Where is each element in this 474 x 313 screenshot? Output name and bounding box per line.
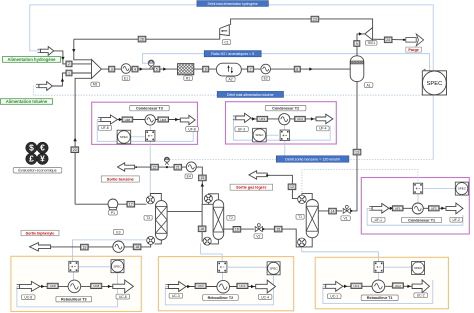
svg-text:16: 16 (235, 228, 239, 232)
stream box 22 (151, 164, 159, 170)
stream box UF4 (295, 116, 306, 121)
svg-text:€: € (40, 143, 45, 153)
product arrow biphenyl (30, 243, 51, 251)
Condenseur T3 inlet arrow (101, 115, 118, 124)
svg-text:A1: A1 (367, 83, 371, 87)
label UC-2 (414, 293, 428, 298)
condenser fan T3 (146, 196, 154, 204)
svg-text:T2: T2 (229, 216, 233, 220)
junction dot benzene gauge (166, 166, 168, 168)
svg-text:14: 14 (331, 209, 335, 213)
stream box UC3 (195, 283, 206, 288)
svg-text:$: $ (29, 143, 34, 153)
label T3 (144, 215, 152, 220)
heat exchanger E1 (121, 64, 131, 74)
SPEC Rebouilleur T3 (111, 260, 124, 273)
label UF-2 (450, 217, 463, 222)
label T1 (296, 214, 304, 219)
green label toluene feed (1, 99, 53, 105)
label Purge (406, 47, 422, 52)
label P1 (109, 210, 118, 215)
stream box UC8 b (91, 283, 102, 288)
Condenseur T1 title (402, 217, 442, 222)
svg-text:UC8: UC8 (93, 284, 99, 288)
label E1 (122, 76, 130, 81)
svg-text:UF3: UF3 (259, 117, 265, 121)
reboiler fan T3 (147, 236, 155, 244)
info line ratio annotation (143, 54, 430, 71)
label UC-8 right (116, 294, 130, 299)
stream box 14 (329, 208, 337, 214)
stream box 3 (109, 66, 115, 72)
label UC-8 left (21, 295, 35, 300)
svg-text:R1: R1 (186, 76, 190, 80)
SPEC Condenseur T1 (455, 182, 468, 195)
Condenseur T3 outlet arrow (180, 115, 195, 124)
label C1 (222, 40, 230, 45)
stream box UC1 (351, 283, 362, 288)
label UC-1 (327, 294, 341, 299)
info line reboiler T1 to module (302, 246, 379, 261)
svg-text:SPEC: SPEC (113, 264, 122, 268)
wire mixer outlet to reactor train (101, 68, 177, 70)
svg-text:UC-2: UC-2 (417, 294, 425, 298)
svg-text:1: 1 (68, 71, 70, 75)
stream box 23 (311, 16, 319, 22)
svg-text:20: 20 (73, 148, 77, 152)
svg-text:21: 21 (176, 166, 180, 170)
module Rebouilleur T1 (374, 262, 383, 273)
Condenseur T3 wire (118, 119, 181, 121)
Condenseur T1 outlet arrow (446, 203, 463, 214)
svg-text:Rebouilleur T1: Rebouilleur T1 (367, 296, 393, 300)
feed arrow toluene (39, 82, 53, 91)
blue label total toluene feed rate (217, 91, 283, 97)
info line condenser T3 module (149, 141, 151, 196)
module Condenseur T2 (280, 130, 289, 141)
wire T3 column bottom to reboiler (155, 240, 162, 244)
region box Condenseur T3 (92, 102, 198, 144)
column T3 (156, 201, 168, 240)
svg-text:22: 22 (153, 165, 157, 169)
reboiler fan T1 (298, 238, 306, 246)
svg-text:Ratio H2 / aromatiques = 5: Ratio H2 / aromatiques = 5 (211, 52, 254, 56)
valve V1 (343, 208, 350, 213)
Rebouilleur T2 outlet arrow (256, 280, 276, 293)
wire T2 left feed stub (208, 203, 213, 205)
svg-text:E1: E1 (124, 76, 128, 80)
label A2 (226, 77, 235, 82)
wire valve V1 to column T1 stream 14 (318, 210, 342, 212)
product arrow light gas (249, 171, 267, 179)
svg-text:UC-8: UC-8 (119, 295, 127, 299)
reactor R1 (178, 64, 194, 75)
svg-text:¥: ¥ (40, 154, 45, 164)
wire T1 overhead to light gas outlet (267, 175, 298, 198)
info line reboiler T3 to module (72, 240, 146, 261)
junction marks on feed lines (61, 57, 64, 60)
label UF-4 (317, 126, 330, 131)
gauge benzene measure (165, 162, 168, 165)
stream box 15 (274, 226, 282, 232)
wire T2 bottoms to T3 feed (202, 204, 203, 241)
module Condenseur T3 (146, 131, 155, 142)
svg-text:UC4: UC4 (239, 284, 245, 288)
stream box 13 (353, 149, 361, 155)
stream box 19 (81, 244, 89, 250)
green label hydrogen feed (3, 57, 61, 63)
column T2 (213, 200, 224, 240)
svg-text:UC1: UC1 (353, 284, 359, 288)
junction mark on benzene riser (201, 183, 204, 186)
svg-text:T3: T3 (146, 216, 150, 220)
wire A1 vapor to TEE1 stream 9 (357, 34, 365, 56)
region box Condenseur T1 (361, 178, 469, 235)
svg-text:5: 5 (156, 67, 158, 71)
region box Rebouilleur T1 (315, 257, 448, 309)
svg-text:C1: C1 (224, 40, 228, 44)
svg-text:18: 18 (135, 245, 139, 249)
svg-text:Condenseur T3: Condenseur T3 (136, 106, 163, 110)
label UC-4 (258, 295, 272, 300)
Rebouilleur T2 wire (186, 286, 256, 288)
stream box 15 (199, 175, 207, 181)
info loop Rebouilleur T1 box (323, 280, 433, 304)
stream box 7 (248, 66, 254, 72)
blue label H2 aromatics ratio (204, 51, 261, 57)
label UF-1 (372, 217, 385, 222)
stream box UF3 (257, 116, 268, 121)
stream box 12 (288, 184, 296, 190)
svg-text:19: 19 (82, 245, 86, 249)
label UC-3 (169, 293, 183, 298)
svg-text:UF-1: UF-1 (375, 218, 382, 222)
svg-text:Débit total alimentation hydro: Débit total alimentation hydrogène (208, 2, 258, 6)
svg-text:6: 6 (205, 67, 207, 71)
Rebouilleur T1 outlet arrow (412, 280, 429, 293)
stream box 24 (384, 37, 392, 43)
svg-text:4: 4 (134, 67, 136, 71)
stream box 1 (66, 70, 72, 76)
svg-text:UC-4: UC-4 (261, 295, 269, 299)
svg-text:16: 16 (200, 227, 204, 231)
svg-text:UC3: UC3 (198, 284, 204, 288)
svg-text:13: 13 (355, 150, 359, 154)
wire recycle 26 into mixer (74, 39, 92, 60)
reboiler fan T2 (203, 237, 211, 245)
info line reboiler T2 to module (201, 243, 223, 261)
wire T2 column bottom to reboiler (211, 240, 219, 244)
svg-text:26: 26 (140, 37, 144, 41)
svg-text:SPEC: SPEC (255, 133, 264, 137)
Condenseur T2 wire (251, 118, 316, 120)
Rebouilleur T1 inlet arrow (326, 281, 343, 291)
wire T1 bottoms to valve V2 (263, 229, 312, 247)
compressor C1 (220, 25, 230, 36)
svg-text:Sortie benzène: Sortie benzène (107, 177, 134, 181)
Condenseur T2 inlet arrow (236, 113, 251, 122)
wire T3 bottoms biphenyl line (51, 244, 151, 247)
condenser fan T1 (298, 195, 306, 203)
svg-text:E2: E2 (264, 77, 268, 81)
stream box 16 (233, 227, 241, 233)
wire TEE1 to purge stream 24 (373, 38, 406, 41)
stream box UF1 (392, 206, 403, 211)
stream box 18 (133, 244, 141, 250)
wire hydrogen feed to mixer stream 2 (54, 51, 92, 64)
label UF-8 right (186, 127, 199, 132)
svg-text:8: 8 (296, 67, 298, 71)
SPEC main block (422, 71, 446, 95)
wire TEE1 recycle to compressor stream 23 (231, 19, 373, 28)
svg-text:Alimentation toluène: Alimentation toluène (6, 99, 48, 104)
svg-text:Rebouilleur T2: Rebouilleur T2 (208, 296, 234, 300)
Condenseur T3 title (130, 105, 170, 110)
label M1 (91, 82, 100, 87)
Rebouilleur T2 exchanger (217, 280, 230, 293)
svg-text:UC8: UC8 (50, 284, 56, 288)
wire toluene feed to mixer stream 1 (52, 73, 91, 86)
svg-text:UF4: UF4 (297, 117, 303, 121)
label A1 (364, 83, 373, 88)
info loop Condenseur T2 box (233, 118, 330, 140)
heat exchanger E3 (113, 241, 124, 252)
svg-text:UF-8: UF-8 (101, 126, 108, 130)
column T1 (306, 200, 318, 238)
condenser fan T2 (204, 195, 212, 203)
info line benzene flow annotation (170, 158, 434, 160)
svg-text:UF1: UF1 (395, 207, 401, 211)
svg-text:UF-4: UF-4 (319, 127, 326, 131)
svg-text:Évaluation économique: Évaluation économique (18, 168, 56, 173)
blue label benzene output rate (276, 156, 349, 162)
Condenseur T1 wire (389, 207, 446, 209)
wire T2 condenser loop (208, 194, 218, 200)
wire T1 condenser loop (302, 193, 312, 199)
stream box 17 (127, 201, 135, 207)
svg-text:UC-3: UC-3 (172, 294, 180, 298)
region box Rebouilleur T3 (11, 256, 141, 311)
Rebouilleur T1 wire (343, 285, 412, 287)
label economic evaluation (13, 168, 62, 173)
stream box 8 (294, 66, 300, 72)
Condenseur T1 inlet arrow (372, 204, 389, 214)
Rebouilleur T3 title (56, 296, 92, 302)
module Condenseur T1 (413, 183, 422, 194)
svg-text:3: 3 (111, 67, 113, 71)
label UF-8 left (98, 126, 111, 131)
module Rebouilleur T3 (69, 261, 78, 272)
stream box 16 (198, 226, 206, 232)
Rebouilleur T3 outlet arrow (113, 280, 134, 293)
svg-text:Condenseur T2: Condenseur T2 (272, 106, 299, 110)
wire T3 condenser to pump P1 toluene recycle (118, 203, 147, 205)
stream box UC4 (237, 283, 248, 288)
svg-text:Sortie biphényle: Sortie biphényle (26, 231, 55, 235)
stream box 4 (132, 66, 138, 72)
svg-text:Rebouilleur T3: Rebouilleur T3 (61, 297, 87, 301)
svg-text:Débit total alimentation toluè: Débit total alimentation toluène (227, 93, 274, 97)
wire A1 liquid stream 13 to valve V1 (351, 82, 357, 211)
stream box 2 (66, 61, 72, 67)
wire T2 condenser to E4 benzene line (196, 167, 208, 204)
wire compressor outlet stream 26 (74, 34, 220, 39)
Condenseur T3 exchanger (145, 115, 155, 125)
stream box 20 (71, 147, 79, 153)
svg-text:9: 9 (356, 42, 358, 46)
info loop Condenseur T3 box (97, 120, 193, 142)
stream box 6 (203, 66, 209, 72)
svg-text:SPEC: SPEC (270, 266, 279, 270)
stream box UF8 b (158, 117, 169, 122)
svg-text:UF8: UF8 (125, 118, 131, 122)
splitter TEE1 (365, 28, 373, 40)
svg-text:Condenseur T1: Condenseur T1 (408, 218, 435, 222)
label UF-3 (235, 127, 248, 132)
svg-text:Sortie gaz légers: Sortie gaz légers (236, 186, 266, 190)
svg-text:E4: E4 (187, 175, 191, 179)
label TEE1 (365, 41, 377, 46)
svg-text:12: 12 (290, 185, 294, 189)
svg-text:UC-1: UC-1 (330, 295, 338, 299)
Rebouilleur T2 inlet arrow (168, 282, 186, 292)
region box Condenseur T2 (226, 102, 337, 144)
feed arrow hydrogen (41, 47, 54, 56)
red label benzene outlet (101, 176, 139, 182)
svg-text:SPEC: SPEC (120, 135, 129, 139)
svg-text:24: 24 (386, 38, 390, 42)
mixer M1 (92, 60, 102, 79)
stream box 5 (154, 66, 160, 72)
Rebouilleur T3 inlet arrow (20, 281, 40, 291)
svg-text:UC-8: UC-8 (24, 296, 32, 300)
Condenseur T1 exchanger (412, 203, 423, 214)
svg-text:UF8: UF8 (160, 118, 166, 122)
svg-text:Purge: Purge (408, 48, 418, 52)
economic evaluation icon (26, 142, 37, 153)
info loop Rebouilleur T3 box (17, 274, 118, 307)
info loop Condenseur T1 box (367, 208, 463, 225)
junction marks on reactor line (140, 67, 143, 70)
product arrow purge (403, 39, 405, 41)
wire E4 to benzene outlet (135, 166, 187, 168)
SPEC Condenseur T2 (253, 128, 267, 142)
info line condenser T1 to module (302, 170, 418, 195)
label V1 (341, 216, 350, 221)
red label biphenyl outlet (21, 230, 59, 235)
SPEC Rebouilleur T2 (267, 262, 280, 275)
adiabatic reactor A2 (216, 63, 241, 76)
junction dot light gas arrow tail (266, 174, 268, 176)
valve V2 (255, 227, 262, 232)
svg-text:SPEC: SPEC (458, 187, 467, 191)
wire valve V2 to column T2 stream 16 (224, 228, 255, 230)
Rebouilleur T1 title (361, 295, 398, 301)
svg-text:15: 15 (200, 176, 204, 180)
svg-text:SPEC: SPEC (427, 81, 443, 87)
info line toluene flow annotation (33, 86, 422, 95)
heat exchanger E4 (186, 162, 196, 172)
stream box UC8 a (47, 283, 58, 288)
flash drum A1 (350, 56, 364, 82)
svg-text:SPEC: SPEC (414, 266, 423, 270)
heat exchanger E2 (261, 64, 271, 74)
svg-text:M1: M1 (93, 83, 98, 87)
product arrow benzene (118, 163, 135, 171)
info line condenser T2 module (284, 141, 286, 157)
svg-text:23: 23 (313, 17, 317, 21)
SPEC Rebouilleur T1 (412, 262, 425, 275)
svg-text:17: 17 (129, 203, 133, 207)
svg-text:TEE1: TEE1 (367, 41, 375, 45)
Condenseur T2 outlet arrow (316, 114, 333, 123)
svg-text:15: 15 (276, 227, 280, 231)
stream box 9 (354, 41, 360, 47)
svg-text:P1: P1 (111, 211, 115, 215)
pump P1 (108, 199, 118, 209)
svg-text:V1: V1 (344, 217, 348, 221)
wire T3 feed horizontal (167, 210, 202, 212)
svg-text:UF-3: UF-3 (238, 127, 245, 131)
region box Rebouilleur T2 (158, 257, 293, 311)
Rebouilleur T1 exchanger (372, 280, 385, 293)
svg-text:UF-2: UF-2 (453, 218, 460, 222)
gauge ratio measure (150, 66, 153, 69)
stream box 21 (174, 164, 182, 170)
SPEC Condenseur T3 (117, 130, 131, 144)
Condenseur T2 title (265, 105, 306, 110)
module Rebouilleur T2 (218, 262, 227, 273)
stream box UF2 (429, 206, 440, 211)
svg-text:7: 7 (250, 67, 252, 71)
svg-text:UF-8: UF-8 (188, 127, 195, 131)
label R1 (184, 76, 193, 81)
Condenseur T2 exchanger (279, 114, 290, 125)
red label light gas outlet (230, 184, 273, 190)
blue label total hydrogen feed rate (197, 1, 269, 7)
junction dot benzene arrow tail (135, 166, 137, 168)
info line hydrogen flow annotation (30, 5, 433, 71)
Rebouilleur T2 title (203, 295, 239, 301)
wire T3 condenser loop (150, 194, 161, 201)
svg-text:£: £ (29, 154, 34, 164)
label E3 (114, 229, 124, 234)
junction dot light gas line (266, 174, 268, 176)
junction mark near TEE1 (359, 32, 362, 35)
svg-text:T1: T1 (298, 215, 302, 219)
label E4 (185, 174, 192, 179)
label E2 (262, 76, 270, 81)
info loop Rebouilleur T2 box (165, 276, 273, 305)
stream box 26 (138, 36, 146, 42)
wire reactor to flash A1 (194, 68, 217, 70)
svg-text:Alimentation hydrogène: Alimentation hydrogène (8, 57, 57, 62)
stream box UF8 a (122, 117, 133, 122)
svg-text:V2: V2 (256, 234, 260, 238)
stream box UC2 (392, 283, 403, 288)
Rebouilleur T3 wire (40, 285, 113, 287)
svg-text:E3: E3 (116, 230, 120, 234)
svg-text:UC2: UC2 (395, 284, 401, 288)
svg-text:2: 2 (68, 62, 70, 66)
svg-text:A2: A2 (229, 78, 233, 82)
svg-text:UF2: UF2 (431, 207, 437, 211)
svg-text:Débit sortie benzène = 120 kmo: Débit sortie benzène = 120 kmol/h (285, 157, 340, 161)
label T2 (227, 215, 235, 220)
label V2 (254, 234, 263, 239)
wire recycle 20 into mixer (75, 78, 91, 204)
Rebouilleur T3 exchanger (68, 280, 81, 293)
